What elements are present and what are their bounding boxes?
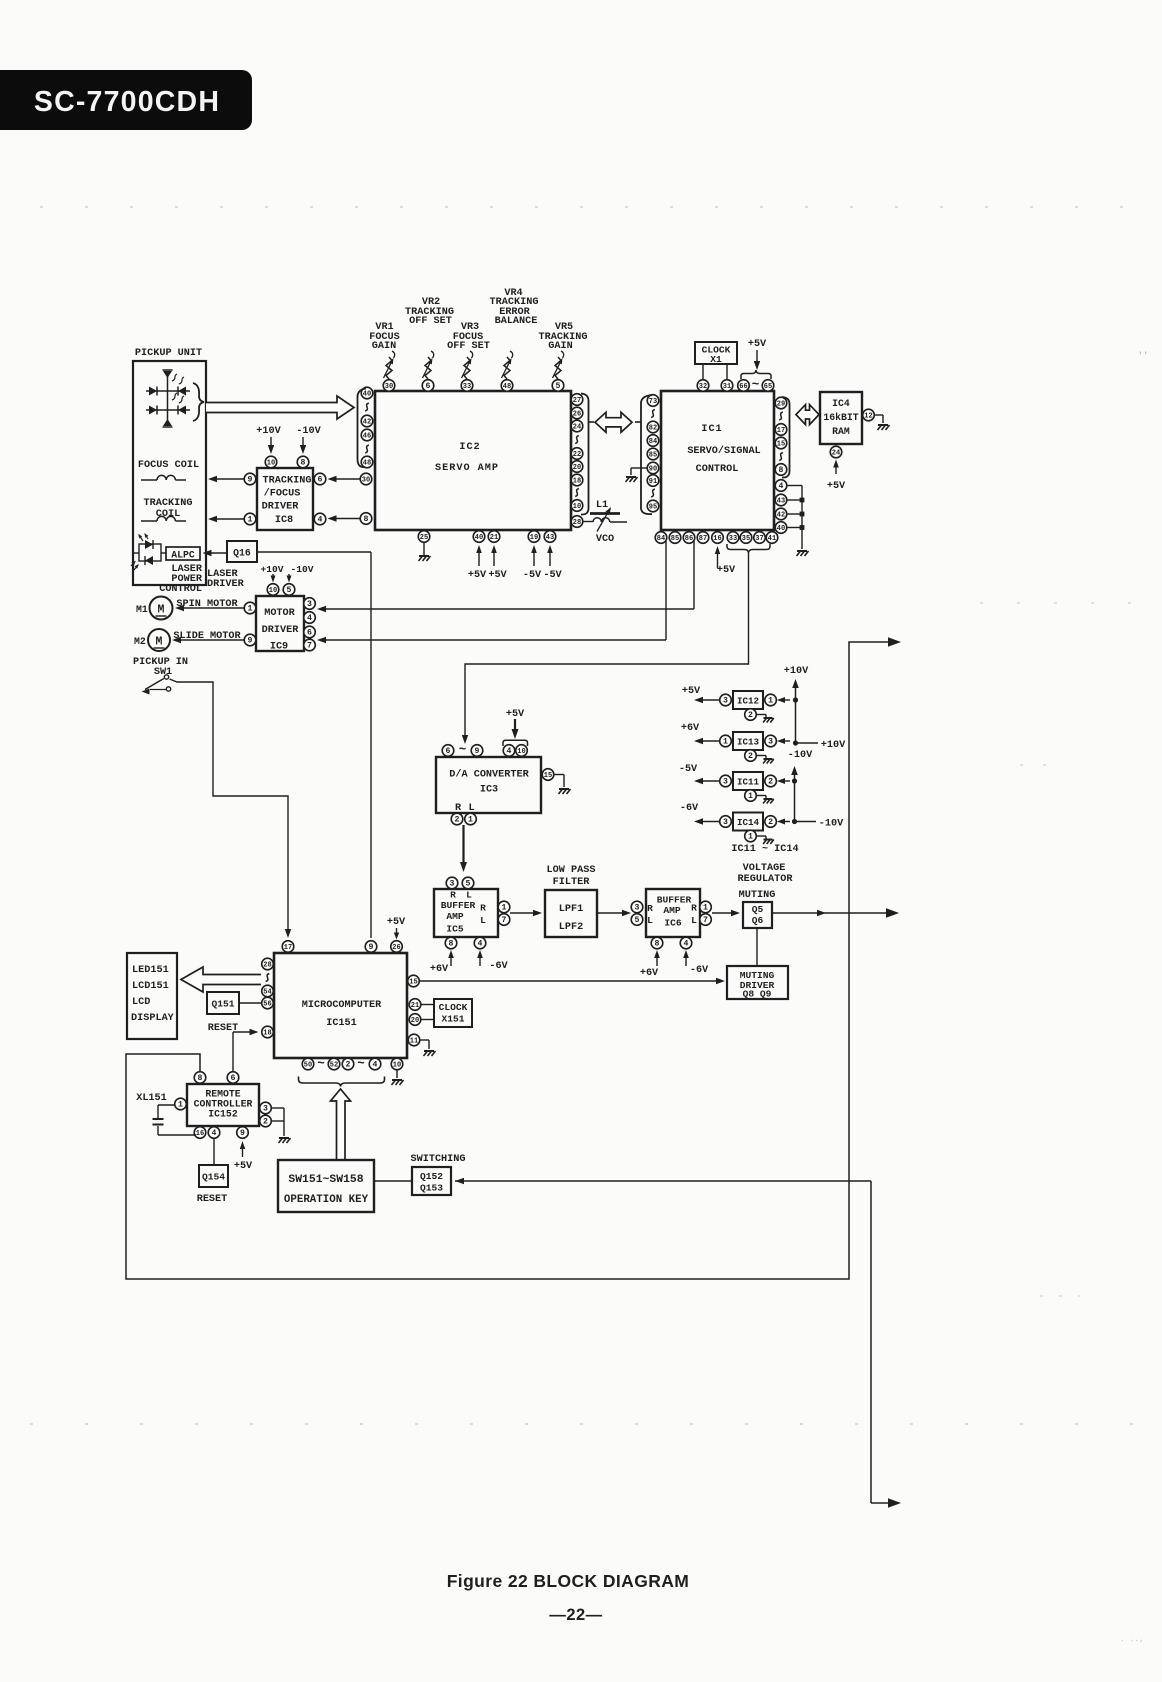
svg-text:1: 1 — [748, 792, 753, 801]
svg-text:IC6: IC6 — [664, 918, 682, 929]
svg-text:2: 2 — [768, 818, 773, 827]
svg-text:IC4: IC4 — [832, 398, 850, 409]
svg-text:37: 37 — [755, 535, 763, 543]
svg-text:+5V: +5V — [717, 565, 736, 576]
svg-text:IC8: IC8 — [275, 515, 293, 526]
svg-text:28: 28 — [573, 519, 581, 527]
svg-text:Q151: Q151 — [211, 999, 234, 1010]
svg-text:1: 1 — [248, 516, 253, 525]
svg-text:9: 9 — [369, 943, 374, 952]
svg-text:46: 46 — [363, 433, 371, 441]
svg-text:33: 33 — [729, 535, 737, 543]
svg-text:L1: L1 — [596, 500, 608, 511]
svg-text:3: 3 — [768, 738, 773, 747]
svg-text:6: 6 — [307, 629, 312, 638]
svg-text:24: 24 — [832, 450, 840, 458]
svg-text:1: 1 — [723, 738, 728, 747]
svg-text:32: 32 — [699, 383, 707, 391]
svg-text:SWITCHING: SWITCHING — [410, 1154, 465, 1165]
svg-text:17: 17 — [284, 944, 292, 952]
svg-text:2: 2 — [748, 752, 753, 761]
svg-text:43: 43 — [546, 534, 554, 542]
svg-text:85: 85 — [671, 535, 679, 543]
svg-text:91: 91 — [649, 478, 657, 486]
svg-text:X1: X1 — [710, 354, 722, 365]
svg-text:28: 28 — [263, 962, 271, 970]
svg-text:R: R — [691, 903, 697, 914]
svg-text:R: R — [480, 903, 486, 914]
svg-text:-5V: -5V — [679, 764, 698, 775]
svg-text:84: 84 — [649, 438, 657, 446]
svg-text:Q152: Q152 — [420, 1171, 443, 1182]
svg-text:AMP: AMP — [446, 911, 464, 922]
svg-text:IC11 ~ IC14: IC11 ~ IC14 — [731, 844, 798, 855]
svg-text:CLOCK: CLOCK — [439, 1002, 468, 1013]
svg-text:20: 20 — [573, 464, 581, 472]
svg-text:BALANCE: BALANCE — [495, 316, 538, 327]
svg-text:85: 85 — [649, 452, 657, 460]
svg-text:5: 5 — [466, 880, 471, 889]
svg-text:IC1: IC1 — [701, 424, 722, 435]
svg-text:+10V: +10V — [256, 426, 281, 437]
svg-text:RESET: RESET — [197, 1194, 228, 1205]
svg-text:+10V: +10V — [821, 740, 846, 751]
svg-text:6: 6 — [231, 1074, 236, 1083]
svg-text:VCO: VCO — [596, 534, 614, 545]
svg-text:6: 6 — [318, 476, 323, 485]
svg-text:RAM: RAM — [832, 426, 850, 437]
svg-text:MICROCOMPUTER: MICROCOMPUTER — [302, 1000, 382, 1011]
svg-text:L: L — [480, 915, 486, 926]
svg-text:4: 4 — [684, 940, 689, 949]
svg-text:-10V: -10V — [788, 750, 813, 761]
svg-text:8: 8 — [655, 940, 660, 949]
svg-text:-10V: -10V — [296, 426, 321, 437]
svg-text:SERVO/SIGNAL: SERVO/SIGNAL — [687, 445, 760, 457]
svg-text:4: 4 — [507, 747, 512, 756]
svg-text:Q8 Q9: Q8 Q9 — [743, 989, 772, 1000]
svg-text:+5V: +5V — [506, 709, 525, 720]
svg-text:IC13: IC13 — [737, 737, 760, 748]
svg-text:SW1: SW1 — [154, 667, 172, 678]
svg-text:2: 2 — [748, 711, 753, 720]
svg-text:2: 2 — [346, 1061, 351, 1070]
svg-text:3: 3 — [723, 818, 728, 827]
svg-text:Q16: Q16 — [233, 548, 251, 559]
svg-text:+5V: +5V — [468, 570, 487, 581]
svg-text:+10V: +10V — [260, 564, 283, 575]
svg-text:4: 4 — [212, 1129, 217, 1138]
svg-text:2: 2 — [263, 1118, 268, 1127]
svg-text:M: M — [156, 636, 163, 649]
svg-text:8: 8 — [779, 466, 784, 475]
svg-text:FILTER: FILTER — [553, 877, 591, 888]
svg-text:35: 35 — [742, 535, 750, 543]
svg-text:26: 26 — [392, 944, 400, 952]
svg-text:16kBIT: 16kBIT — [823, 412, 858, 423]
svg-text:29: 29 — [777, 401, 785, 409]
svg-text:33: 33 — [463, 383, 471, 391]
svg-text:3: 3 — [450, 880, 455, 889]
svg-text:DRIVER: DRIVER — [262, 502, 300, 513]
svg-text:+6V: +6V — [430, 964, 449, 975]
svg-text:40: 40 — [777, 525, 785, 533]
svg-text:+5V: +5V — [748, 339, 767, 350]
svg-text:82: 82 — [649, 425, 657, 433]
svg-text:IC5: IC5 — [446, 924, 464, 935]
svg-text:SC-7700CDH: SC-7700CDH — [34, 86, 220, 118]
svg-text:4: 4 — [307, 614, 312, 623]
svg-text:~: ~ — [752, 378, 760, 392]
svg-text:9: 9 — [248, 476, 253, 485]
svg-text:BUFFER: BUFFER — [657, 895, 692, 906]
svg-text:1: 1 — [248, 605, 253, 614]
svg-text:16: 16 — [196, 1130, 204, 1138]
svg-text:M2: M2 — [134, 636, 146, 647]
svg-text:4: 4 — [779, 482, 784, 491]
svg-text:LOW PASS: LOW PASS — [547, 865, 596, 876]
svg-text:R: R — [455, 803, 462, 814]
svg-text:+6V: +6V — [640, 968, 659, 979]
svg-text:Q153: Q153 — [420, 1183, 443, 1194]
svg-text:SW151~SW158: SW151~SW158 — [288, 1174, 363, 1186]
svg-text:L: L — [468, 803, 474, 814]
svg-text:43: 43 — [777, 498, 785, 506]
svg-text:15: 15 — [409, 979, 417, 987]
svg-text:10: 10 — [393, 1062, 401, 1070]
svg-text:30: 30 — [385, 383, 393, 391]
svg-text:DRIVER: DRIVER — [262, 625, 300, 636]
svg-text:M: M — [158, 604, 165, 617]
svg-text:4: 4 — [478, 940, 483, 949]
svg-text:3: 3 — [723, 778, 728, 787]
svg-text:LCD: LCD — [132, 997, 150, 1008]
svg-text:66: 66 — [739, 383, 747, 391]
svg-text:OFF SET: OFF SET — [447, 341, 490, 352]
svg-text:IC14: IC14 — [737, 817, 760, 828]
svg-text:IC12: IC12 — [737, 696, 759, 707]
svg-text:~: ~ — [317, 1057, 325, 1071]
svg-text:VOLTAGE: VOLTAGE — [743, 863, 786, 874]
svg-text:-5V: -5V — [543, 570, 562, 581]
svg-text:2: 2 — [455, 816, 460, 825]
svg-text:CONTROL: CONTROL — [159, 584, 202, 595]
svg-text:3: 3 — [263, 1105, 268, 1114]
svg-text:7: 7 — [307, 642, 312, 651]
svg-text:-6V: -6V — [680, 803, 699, 814]
svg-text:LCD151: LCD151 — [132, 981, 169, 992]
svg-text:6: 6 — [446, 747, 451, 756]
svg-text:-10V: -10V — [819, 819, 844, 830]
svg-text:IC152: IC152 — [208, 1109, 238, 1120]
svg-text:18: 18 — [573, 478, 581, 486]
svg-text:8: 8 — [364, 515, 369, 524]
svg-text:AMP: AMP — [663, 905, 681, 916]
svg-text:ALPC: ALPC — [171, 550, 195, 561]
svg-text:DISPLAY: DISPLAY — [131, 1013, 175, 1024]
svg-text:Q5: Q5 — [752, 904, 764, 915]
svg-text:25: 25 — [420, 534, 428, 542]
svg-text:-6V: -6V — [690, 965, 709, 976]
svg-text:65: 65 — [764, 383, 772, 391]
svg-text:Q154: Q154 — [202, 1172, 225, 1183]
svg-text:GAIN: GAIN — [548, 341, 572, 352]
svg-text:LED151: LED151 — [132, 965, 169, 976]
svg-text:30: 30 — [362, 477, 370, 485]
svg-text:+5V: +5V — [387, 917, 406, 928]
svg-text:. ..,: . .., — [1120, 1635, 1144, 1644]
svg-text:D/A CONVERTER: D/A CONVERTER — [449, 769, 529, 781]
svg-text:10: 10 — [267, 460, 275, 468]
svg-text:+5V: +5V — [682, 686, 701, 697]
svg-text:~: ~ — [357, 1057, 365, 1071]
svg-text:COIL: COIL — [156, 509, 180, 520]
svg-text:1: 1 — [468, 816, 473, 825]
svg-text:5: 5 — [556, 382, 561, 391]
svg-text:1: 1 — [502, 904, 507, 913]
svg-text:SERVO AMP: SERVO AMP — [435, 463, 499, 474]
svg-text:+5V: +5V — [827, 481, 846, 492]
svg-text:TRACKING: TRACKING — [263, 476, 312, 487]
svg-text:73: 73 — [649, 398, 657, 406]
svg-text:12: 12 — [864, 413, 872, 421]
svg-text:L: L — [466, 890, 472, 901]
svg-text:40: 40 — [363, 391, 371, 399]
svg-text:20: 20 — [411, 1017, 419, 1025]
svg-text:GAIN: GAIN — [372, 341, 396, 352]
svg-text:+5V: +5V — [488, 570, 507, 581]
svg-text:1: 1 — [748, 833, 753, 842]
svg-text:CONTROL: CONTROL — [696, 464, 739, 475]
svg-text:IC9: IC9 — [270, 642, 288, 653]
svg-text:54: 54 — [263, 989, 271, 997]
svg-text:48: 48 — [503, 383, 511, 391]
svg-text:8: 8 — [198, 1074, 203, 1083]
svg-text:4: 4 — [373, 1061, 378, 1070]
svg-text:-6V: -6V — [489, 961, 508, 972]
svg-text:/FOCUS: /FOCUS — [264, 488, 301, 500]
svg-text:9: 9 — [475, 747, 480, 756]
svg-text:5: 5 — [635, 916, 640, 925]
svg-text:52: 52 — [330, 1062, 338, 1070]
svg-text:3: 3 — [635, 904, 640, 913]
svg-text:41: 41 — [768, 535, 776, 543]
svg-text:42: 42 — [363, 419, 371, 427]
svg-text:18: 18 — [263, 1030, 271, 1038]
svg-text:BUFFER: BUFFER — [441, 900, 476, 911]
svg-text:M1: M1 — [136, 604, 148, 615]
svg-text:4: 4 — [318, 516, 323, 525]
svg-text:LPF2: LPF2 — [559, 922, 583, 933]
svg-text:21: 21 — [411, 1002, 419, 1010]
svg-text:L: L — [691, 915, 697, 926]
svg-text:19: 19 — [530, 534, 538, 542]
svg-text:IC3: IC3 — [480, 785, 498, 796]
svg-text:PICKUP UNIT: PICKUP UNIT — [135, 348, 202, 359]
svg-text:15: 15 — [777, 441, 785, 449]
svg-text:90: 90 — [649, 466, 657, 474]
svg-text:6: 6 — [426, 382, 431, 391]
svg-text:'': '' — [1138, 351, 1149, 361]
svg-text:10: 10 — [573, 503, 581, 511]
svg-text:1: 1 — [703, 904, 708, 913]
svg-text:MUTING: MUTING — [739, 890, 776, 901]
svg-text:OFF SET: OFF SET — [409, 316, 452, 327]
svg-text:+10V: +10V — [784, 666, 809, 677]
svg-text:FOCUS COIL: FOCUS COIL — [138, 460, 199, 471]
svg-text:7: 7 — [502, 916, 507, 925]
svg-text:27: 27 — [573, 397, 581, 405]
svg-text:XL151: XL151 — [136, 1093, 167, 1104]
svg-text:TRACKING: TRACKING — [144, 498, 193, 509]
svg-text:1: 1 — [768, 697, 773, 706]
svg-text:17: 17 — [777, 427, 785, 435]
svg-text:9: 9 — [248, 637, 253, 646]
svg-text:84: 84 — [657, 535, 665, 543]
svg-text:3: 3 — [307, 600, 312, 609]
svg-text:Figure 22 BLOCK DIAGRAM: Figure 22 BLOCK DIAGRAM — [447, 1571, 690, 1591]
svg-text:3: 3 — [723, 697, 728, 706]
svg-text:IC2: IC2 — [459, 442, 480, 453]
svg-text:87: 87 — [699, 535, 707, 543]
svg-text:95: 95 — [649, 504, 657, 512]
svg-text:+5V: +5V — [234, 1161, 253, 1172]
svg-text:LPF1: LPF1 — [559, 904, 583, 915]
svg-text:IC151: IC151 — [326, 1018, 357, 1029]
svg-text:DRIVER: DRIVER — [207, 579, 245, 590]
svg-text:R: R — [647, 903, 653, 914]
svg-text:86: 86 — [685, 535, 693, 543]
svg-text:REGULATOR: REGULATOR — [737, 874, 793, 885]
svg-text:7: 7 — [703, 916, 708, 925]
svg-text:-5V: -5V — [523, 570, 542, 581]
svg-text:9: 9 — [240, 1129, 245, 1138]
svg-text:L: L — [647, 915, 653, 926]
svg-text:16: 16 — [713, 535, 721, 543]
svg-text:11: 11 — [410, 1038, 418, 1046]
svg-text:31: 31 — [723, 383, 731, 391]
svg-text:-10V: -10V — [290, 564, 313, 575]
svg-text:1: 1 — [178, 1101, 183, 1110]
svg-text:24: 24 — [573, 424, 581, 432]
svg-text:2: 2 — [768, 778, 773, 787]
svg-text:Q6: Q6 — [752, 915, 764, 926]
svg-text:10: 10 — [517, 748, 525, 756]
svg-text:42: 42 — [777, 512, 785, 520]
svg-text:21: 21 — [490, 534, 498, 542]
svg-text:OPERATION KEY: OPERATION KEY — [284, 1194, 369, 1206]
svg-text:10: 10 — [269, 587, 277, 595]
svg-text:—22—: —22— — [549, 1606, 602, 1624]
svg-text:8: 8 — [301, 459, 306, 468]
svg-text:50: 50 — [304, 1062, 312, 1070]
svg-text:22: 22 — [573, 451, 581, 459]
svg-text:R: R — [450, 890, 456, 901]
svg-text:40: 40 — [475, 534, 483, 542]
svg-text:5: 5 — [287, 586, 292, 595]
svg-text:8: 8 — [449, 940, 454, 949]
svg-text:56: 56 — [263, 1001, 271, 1009]
svg-text:X151: X151 — [441, 1014, 464, 1025]
svg-text:15: 15 — [544, 772, 552, 780]
svg-text:IC11: IC11 — [737, 777, 760, 788]
svg-text:26: 26 — [573, 411, 581, 419]
svg-text:~: ~ — [459, 743, 467, 757]
svg-text:MOTOR: MOTOR — [264, 608, 295, 619]
svg-text:+6V: +6V — [681, 723, 700, 734]
